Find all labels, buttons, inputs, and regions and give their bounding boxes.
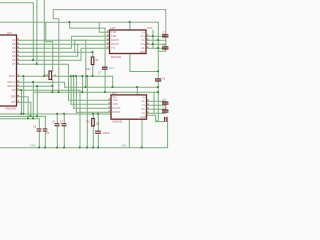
svg-text:C2+: C2+: [141, 43, 146, 46]
svg-text:R2OUT: R2OUT: [113, 111, 122, 114]
svg-text:100nF: 100nF: [103, 132, 110, 135]
svg-text:T2IN: T2IN: [113, 103, 118, 106]
svg-text:OE: OE: [12, 89, 16, 92]
svg-text:C2-: C2-: [142, 112, 146, 115]
svg-text:QH': QH': [11, 101, 16, 104]
svg-text:T2IN: T2IN: [111, 35, 116, 38]
svg-text:GND: GND: [30, 145, 36, 148]
svg-text:T1IN: T1IN: [113, 99, 118, 102]
svg-text:U1?: U1?: [7, 31, 12, 35]
svg-text:GND: GND: [140, 51, 146, 54]
svg-text:GND: GND: [140, 116, 146, 119]
svg-text:TTL: TTL: [111, 47, 116, 50]
svg-text:GND: GND: [121, 144, 127, 147]
svg-text:MAX232: MAX232: [113, 119, 124, 123]
svg-text:C2+: C2+: [141, 108, 146, 111]
svg-text:R1OUT: R1OUT: [113, 107, 122, 110]
svg-text:10uF: 10uF: [109, 67, 115, 70]
svg-text:C1-: C1-: [142, 104, 146, 107]
svg-text:RCLK: RCLK: [9, 75, 16, 78]
svg-text:VCC: VCC: [147, 26, 153, 30]
svg-text:U3?: U3?: [112, 91, 117, 95]
svg-text:MAX232: MAX232: [111, 55, 122, 59]
svg-text:C1+: C1+: [141, 35, 146, 38]
svg-text:C1-: C1-: [141, 39, 145, 42]
svg-text:SRCLK: SRCLK: [7, 81, 15, 84]
svg-text:SRCLR: SRCLR: [7, 85, 15, 88]
svg-text:SER: SER: [10, 96, 15, 99]
svg-text:R2OUT: R2OUT: [111, 43, 120, 46]
svg-text:U2?: U2?: [111, 26, 116, 30]
svg-text:74HC595: 74HC595: [5, 107, 17, 111]
svg-text:R1OUT: R1OUT: [111, 39, 120, 42]
svg-text:C2-: C2-: [141, 47, 145, 50]
svg-text:T1IN: T1IN: [111, 31, 116, 34]
svg-text:C1+: C1+: [141, 100, 146, 103]
